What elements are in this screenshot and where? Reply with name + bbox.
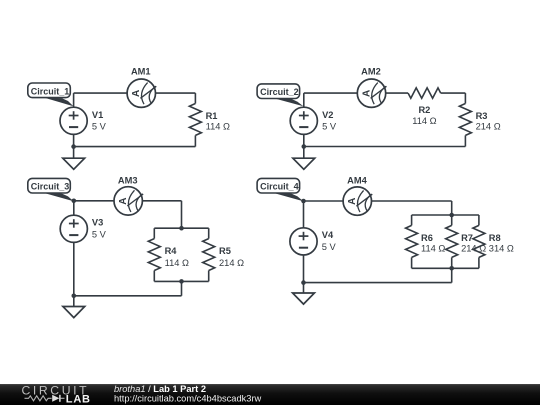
svg-text:A: A bbox=[131, 90, 142, 97]
svg-text:V3: V3 bbox=[92, 218, 103, 228]
svg-text:AM1: AM1 bbox=[131, 67, 151, 77]
svg-text:R5: R5 bbox=[219, 246, 231, 256]
svg-text:R1: R1 bbox=[206, 111, 218, 121]
svg-text:LAB: LAB bbox=[66, 393, 91, 405]
svg-text:V1: V1 bbox=[92, 110, 103, 120]
svg-text:Circuit_3: Circuit_3 bbox=[31, 182, 70, 192]
svg-text:R2: R2 bbox=[418, 105, 430, 115]
svg-text:V4: V4 bbox=[322, 230, 334, 240]
svg-text:AM4: AM4 bbox=[347, 176, 367, 186]
svg-text:Circuit_2: Circuit_2 bbox=[260, 87, 299, 97]
svg-text:114 Ω: 114 Ω bbox=[421, 244, 445, 254]
svg-text:http://circuitlab.com/c4b4bsca: http://circuitlab.com/c4b4bscadk3rw bbox=[114, 394, 262, 404]
svg-text:A: A bbox=[118, 197, 129, 204]
svg-text:5 V: 5 V bbox=[92, 229, 107, 239]
svg-text:114 Ω: 114 Ω bbox=[206, 122, 230, 132]
svg-text:314 Ω: 314 Ω bbox=[489, 244, 514, 254]
svg-text:Circuit_4: Circuit_4 bbox=[260, 182, 299, 192]
svg-text:R8: R8 bbox=[489, 233, 501, 243]
svg-text:Circuit_1: Circuit_1 bbox=[31, 86, 70, 96]
svg-text:214 Ω: 214 Ω bbox=[476, 122, 501, 132]
svg-text:A: A bbox=[347, 198, 358, 205]
svg-text:A: A bbox=[361, 90, 372, 97]
svg-text:114 Ω: 114 Ω bbox=[165, 258, 189, 268]
svg-text:R6: R6 bbox=[421, 233, 433, 243]
svg-text:R7: R7 bbox=[461, 233, 473, 243]
svg-text:5 V: 5 V bbox=[92, 122, 107, 132]
svg-text:5 V: 5 V bbox=[322, 122, 337, 132]
svg-text:114 Ω: 114 Ω bbox=[412, 116, 436, 126]
svg-text:R3: R3 bbox=[476, 111, 488, 121]
svg-text:AM2: AM2 bbox=[361, 67, 381, 77]
svg-text:214 Ω: 214 Ω bbox=[219, 258, 244, 268]
svg-text:5 V: 5 V bbox=[322, 242, 337, 252]
svg-text:V2: V2 bbox=[322, 110, 333, 120]
svg-text:214 Ω: 214 Ω bbox=[461, 244, 486, 254]
svg-text:R4: R4 bbox=[165, 246, 178, 256]
svg-text:AM3: AM3 bbox=[118, 176, 138, 186]
